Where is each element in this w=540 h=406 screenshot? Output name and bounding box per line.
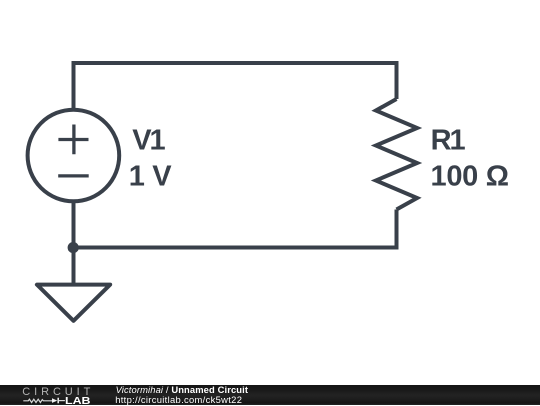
wire bottom horizontal bbox=[72, 246, 399, 250]
footer bar bbox=[0, 385, 540, 406]
wire top-right vertical bbox=[395, 63, 399, 99]
svg-text:V1: V1 bbox=[132, 124, 165, 156]
wire bottom-right vertical bbox=[395, 210, 399, 248]
svg-text:R1: R1 bbox=[431, 124, 466, 156]
wire ground stem bbox=[72, 248, 76, 285]
ground bbox=[37, 285, 110, 321]
resistor R1 bbox=[376, 99, 417, 210]
svg-text:LAB: LAB bbox=[65, 395, 91, 405]
logo resistor squiggle bbox=[23, 399, 52, 402]
footer credit line 2 bbox=[115, 395, 242, 404]
wire top horizontal bbox=[72, 61, 399, 65]
svg-text:1 V: 1 V bbox=[129, 161, 173, 193]
wire top-left vertical bbox=[72, 63, 76, 110]
svg-text:100 Ω: 100 Ω bbox=[431, 161, 509, 193]
wire V1 bottom to node bbox=[72, 201, 76, 248]
footer credit line 1 bbox=[116, 385, 249, 394]
node junction bbox=[68, 242, 79, 253]
logo diode bbox=[52, 398, 57, 403]
CircuitLab logo bbox=[0, 385, 110, 406]
voltage source V1 bbox=[28, 110, 120, 202]
